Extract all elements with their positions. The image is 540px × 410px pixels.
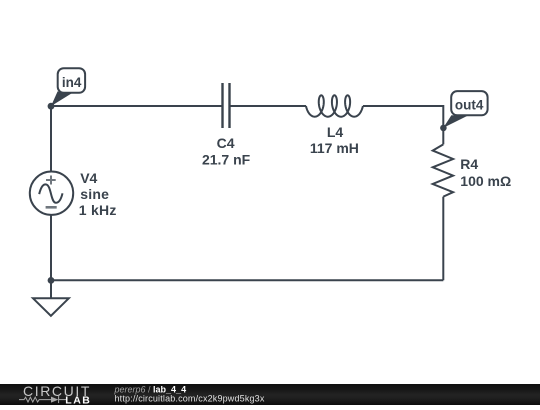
svg-text:R4: R4 [460,156,478,172]
svg-text:in4: in4 [62,75,82,90]
plus sign of source [46,179,56,181]
svg-text:100 mΩ: 100 mΩ [460,173,511,189]
wire inductor to top-right corner and down [363,106,443,144]
node out4 dot [440,125,447,132]
sine wave inside source [39,184,62,202]
svg-text:LAB: LAB [65,394,91,405]
ground stub [50,280,52,298]
svg-text:C4: C4 [217,135,235,151]
wire top-left to capacitor [51,105,222,107]
in4 label pointer [51,91,72,106]
svg-text:117 mH: 117 mH [310,140,359,156]
out4 label box [451,91,487,115]
svg-text:http://circuitlab.com/cx2k9pwd: http://circuitlab.com/cx2k9pwd5kg3x [115,394,265,404]
wire resistor to bottom [442,197,444,281]
svg-text:1 kHz: 1 kHz [79,202,117,218]
out4 label pointer [443,115,468,128]
capacitor C4 left plate [221,83,223,128]
capacitor C4 right plate [228,83,230,128]
resistor R4 [433,144,453,196]
inductor L4 [306,95,363,116]
svg-text:L4: L4 [327,124,344,140]
logo diode [51,397,58,403]
voltage source V4 circle [30,172,73,215]
bottom wire [51,279,443,281]
in4 label box [58,68,85,93]
wire source to bottom node [50,215,52,280]
svg-text:21.7 nF: 21.7 nF [202,152,251,168]
svg-text:out4: out4 [455,98,484,113]
svg-text:V4: V4 [80,170,97,186]
wire node in4 down to source [50,106,52,172]
ground [33,298,69,316]
wire capacitor to inductor [230,105,306,107]
svg-text:sine: sine [80,186,109,202]
minus sign of source [46,206,57,209]
node ground dot [48,277,55,284]
node in4 dot [48,103,55,110]
logo wire with resistor and diode [19,396,67,403]
